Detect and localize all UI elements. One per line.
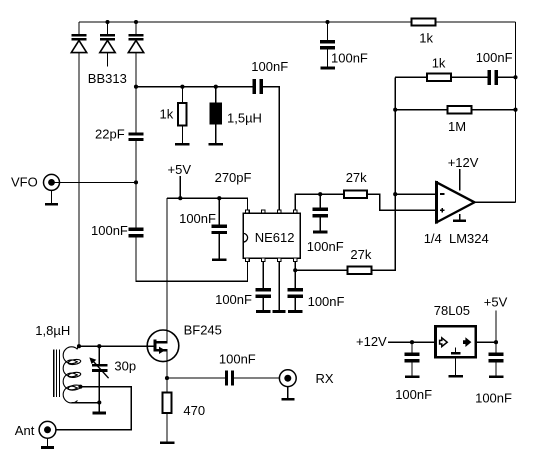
- svg-text:78L05: 78L05: [434, 303, 470, 318]
- svg-text:100nF: 100nF: [251, 59, 288, 74]
- node: junction dot inverting node / 1M: [393, 108, 397, 112]
- wire: BF245 source down to output node: [166, 350, 168, 378]
- capacitor 100nF (regulator output): [475, 342, 512, 406]
- pin squares bottom: [246, 258, 250, 261]
- svg-text:100nF: 100nF: [395, 387, 432, 402]
- svg-text:+5V: +5V: [168, 162, 192, 177]
- ground (tuned circuit): [93, 403, 106, 415]
- varactor diode D2 (BB313): [100, 22, 115, 53]
- capacitor 100nF (NE612 +5V decoupling): [179, 198, 227, 258]
- wire: +5V rail vertical down to BF245 drain: [166, 198, 168, 342]
- wire: D3 anode down to varicap node: [135, 53, 137, 87]
- wire: NE612 pin 4 bottom to junction: [294, 262, 296, 288]
- ground (VFO connector): [45, 190, 58, 205]
- svg-text:VFO: VFO: [11, 175, 38, 190]
- capacitor 100nF (RX coupling): [219, 351, 256, 385]
- node: junction dot decoupling cap: [217, 196, 221, 200]
- node: junction dot VFO line / 22pF line: [134, 180, 138, 184]
- node: junction dot coil top: [77, 344, 81, 348]
- ground (pin2 cap): [256, 310, 271, 313]
- wire: gate rail from coil to BF245: [79, 345, 154, 347]
- ground (regulator output cap): [489, 375, 504, 378]
- svg-text:100nF: 100nF: [476, 50, 513, 65]
- node: junction dot output rail / 1M: [513, 108, 517, 112]
- node: junction dot trimmer top: [97, 344, 101, 348]
- op-amp U2 1/4 LM324: [424, 181, 489, 246]
- node: junction dot top rail / diode D2: [105, 20, 109, 24]
- wire: top +12V rail left segment: [79, 21, 411, 23]
- wire: coil tap to Ant connector: [56, 387, 131, 430]
- svg-text:270pF: 270pF: [215, 170, 252, 185]
- node: junction dot coil tap: [78, 385, 82, 389]
- svg-text:470: 470: [183, 403, 205, 418]
- wire: 1M to output rail: [472, 109, 516, 111]
- wire: +12V to regulator input: [388, 341, 436, 343]
- svg-text:100nF: 100nF: [179, 211, 216, 226]
- resistor 27k (upper, to op-amp + input): [344, 170, 367, 198]
- ground (regulator input cap): [405, 375, 420, 378]
- ground (under 470): [160, 441, 175, 444]
- svg-text:RX: RX: [316, 371, 334, 386]
- svg-text:100nF: 100nF: [219, 351, 256, 366]
- node: junction dot top rail / 100nF decoupling: [325, 20, 329, 24]
- wire: lower 27k up the inverting input node: [372, 77, 395, 270]
- wire: top +12V rail right segment: [436, 21, 516, 23]
- svg-text:+12V: +12V: [356, 334, 387, 349]
- ground (regulator): [448, 357, 463, 377]
- wire: VFO to varicap line: [52, 181, 137, 183]
- capacitor 100nF (feedback series): [476, 50, 513, 85]
- ground (op-amp V-): [453, 214, 466, 222]
- capacitor trimmer 30p: [89, 346, 136, 402]
- node: junction dot pin 4 bottom: [293, 268, 297, 272]
- capacitor 100nF (VFO series to NE612 pin 1): [91, 182, 144, 238]
- svg-text:22pF: 22pF: [95, 127, 125, 142]
- pin squares top: [246, 210, 250, 213]
- wire: 1M row: [395, 109, 447, 111]
- svg-text:1k: 1k: [432, 55, 446, 70]
- IC U1 NE612: [243, 210, 300, 262]
- wire: coil bottom to ground node: [72, 402, 100, 404]
- transistor Q1 BF245: [147, 322, 222, 361]
- wire: +5V rail horizontal to NE612 pin 1 top: [167, 198, 247, 210]
- svg-text:27k: 27k: [346, 170, 367, 185]
- wire: right vertical rail (+12V feed down to op-amp output): [515, 22, 517, 202]
- svg-text:1M: 1M: [448, 119, 466, 134]
- wire: 27k to op-amp plus input: [367, 194, 435, 210]
- resistor 1k (varicap bias to ground): [160, 87, 187, 143]
- wire: 100nF to output rail: [498, 76, 516, 78]
- ground (pin4 cap): [288, 310, 303, 313]
- svg-text:27k: 27k: [350, 247, 371, 262]
- svg-text:100nF: 100nF: [215, 292, 252, 307]
- ground (pin3): [273, 310, 286, 313]
- svg-text:100nF: 100nF: [475, 391, 512, 406]
- wire: feedback row 1k+100nF: [395, 76, 427, 78]
- node: junction dot mixer output / 100nF: [318, 192, 322, 196]
- capacitor 100nF (mixer output to ground): [307, 194, 344, 254]
- inductor 1,5uH: [210, 87, 262, 143]
- capacitor 22pF (in VFO line): [95, 87, 144, 142]
- resistor 1k (feedback): [427, 55, 451, 81]
- resistor 1M (feedback): [447, 106, 471, 134]
- wire: source node to coupling cap: [167, 377, 225, 379]
- wire: NE612 pin 4 top up and right to 27k: [295, 194, 344, 210]
- svg-text:+12V: +12V: [448, 155, 479, 170]
- capacitor 100nF (top rail decoupling): [320, 22, 368, 67]
- node: junction dot output rail / feedback: [513, 75, 517, 79]
- svg-text:1k: 1k: [419, 31, 433, 46]
- ground (under 1k): [175, 143, 190, 146]
- wire: 100nF down and right to NE612 pin 1 bottom: [136, 238, 247, 282]
- svg-text:+5V: +5V: [484, 295, 508, 310]
- wire: pin 4 junction right to lower 27k: [295, 269, 347, 271]
- capacitor 100nF (regulator input): [395, 342, 432, 402]
- svg-text:100nF: 100nF: [307, 239, 344, 254]
- resistor 470 (source to ground): [163, 378, 205, 441]
- wire: inverting node to op-amp minus input: [395, 193, 435, 195]
- node: junction dot inverting node / minus input: [393, 192, 397, 196]
- resistor 1k (top rail): [411, 18, 435, 25]
- svg-text:BF245: BF245: [184, 322, 222, 337]
- svg-text:NE612: NE612: [255, 230, 295, 245]
- svg-text:Ant: Ant: [15, 423, 35, 438]
- capacitor 100nF (NE612 pin 4 bypass): [288, 288, 345, 310]
- ground (under decoupling cap): [212, 258, 227, 261]
- resistor 27k (lower, to op-amp - input): [348, 247, 372, 274]
- inductor L1 1,8uH (tapped coil): [35, 323, 81, 403]
- node: junction dot +5V stem: [178, 196, 182, 200]
- node: junction dot varicap rail / D3: [134, 85, 138, 89]
- svg-text:1,5µH: 1,5µH: [227, 111, 262, 126]
- capacitor 100nF (NE612 pin 2 bypass): [215, 288, 271, 310]
- connector Ant: [15, 421, 56, 438]
- node: junction dot varicap rail / 1.5uH: [214, 85, 218, 89]
- varactor diode D1 (BB313): [71, 22, 86, 53]
- node: junction dot top rail / diode D3: [134, 20, 138, 24]
- svg-text:100nF: 100nF: [331, 51, 368, 66]
- wire: coupling cap to RX connector: [234, 377, 279, 379]
- wire: NE612 pin 3 bottom to ground: [278, 262, 280, 311]
- wire: D2 anode stub: [107, 53, 109, 67]
- connector VFO: [11, 174, 60, 190]
- ground (under mixer output cap): [313, 231, 328, 234]
- svg-text:BB313: BB313: [88, 71, 127, 86]
- node: junction dot regulator output: [494, 340, 498, 344]
- IC U3 78L05 voltage regulator: [434, 303, 476, 357]
- node: junction dot regulator input cap: [410, 340, 414, 344]
- wire: varicap bias rail y=86.7: [136, 86, 252, 88]
- wire: 1k to 100nF: [452, 76, 488, 78]
- svg-text:1k: 1k: [160, 106, 174, 121]
- connector RX: [279, 370, 333, 387]
- node: junction dot coil bottom / trimmer bottom: [97, 400, 101, 404]
- svg-text:30p: 30p: [114, 358, 136, 373]
- capacitor 100nF (series, varicap rail to NE612 pin): [251, 59, 288, 94]
- wire: 22pF to VFO node: [135, 141, 137, 182]
- ground (Ant connector): [41, 438, 54, 449]
- svg-text:1,8µH: 1,8µH: [35, 323, 70, 338]
- wire: NE612 pin 2 bottom to cap: [262, 262, 264, 288]
- power +5V: [168, 162, 192, 198]
- ground (RX connector): [281, 387, 294, 401]
- power +5V (regulator output): [484, 295, 508, 343]
- wire: D1 anode down to coil top: [78, 53, 80, 347]
- svg-text:100nF: 100nF: [91, 223, 128, 238]
- svg-text:1/4 LM324: 1/4 LM324: [424, 231, 489, 246]
- wire: regulator output: [476, 341, 496, 343]
- node: junction dot varicap rail / 1k: [180, 85, 184, 89]
- ground (top rail cap): [320, 67, 335, 70]
- ground (under 1,5uH): [209, 143, 224, 146]
- wire: series cap to NE612 pin 3 top: [263, 87, 279, 210]
- svg-text:100nF: 100nF: [308, 294, 345, 309]
- node: junction dot BF245 source: [165, 376, 169, 380]
- wire: op-amp output: [475, 201, 516, 203]
- power +12V (op-amp): [448, 155, 479, 191]
- varactor diode D3 (BB313): [128, 22, 143, 53]
